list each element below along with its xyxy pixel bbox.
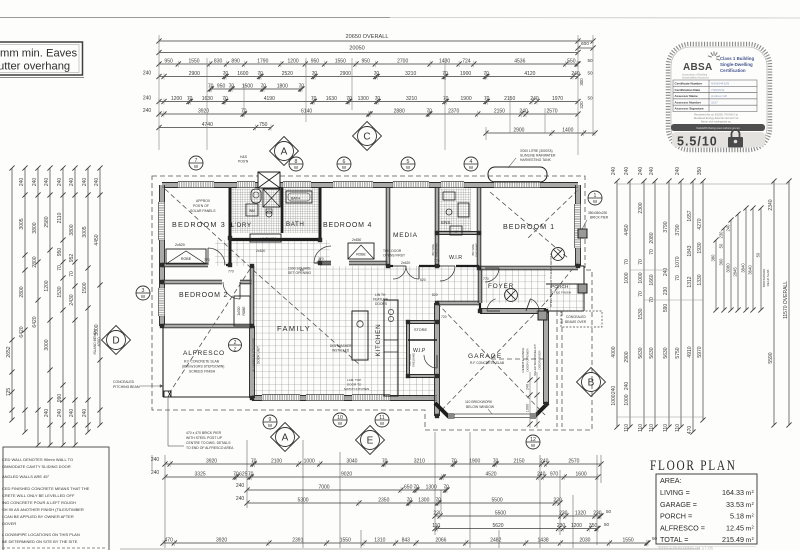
svg-text:DISHWASHER: DISHWASHER [330, 344, 352, 348]
svg-text:350: 350 [589, 523, 598, 529]
svg-text:2570: 2570 [568, 458, 579, 464]
svg-text:2520: 2520 [282, 71, 293, 77]
svg-text:ALUMINIUM STACKER: ALUMINIUM STACKER [252, 338, 256, 372]
svg-text:770: 770 [434, 259, 440, 263]
svg-text:3217: 3217 [711, 100, 718, 104]
svg-text:620: 620 [420, 278, 426, 282]
svg-text:Certificate Number: Certificate Number [675, 82, 703, 86]
svg-text:70: 70 [451, 458, 457, 464]
svg-text:SHELVING: SHELVING [475, 243, 479, 257]
svg-text:2x520: 2x520 [256, 249, 265, 253]
svg-text:D: D [112, 336, 119, 347]
svg-text:3800: 3800 [69, 224, 75, 235]
svg-text:300: 300 [579, 78, 584, 86]
svg-text:70: 70 [374, 71, 380, 77]
svg-text:70: 70 [229, 83, 235, 89]
svg-text:50: 50 [718, 243, 723, 248]
svg-text:5.5/10: 5.5/10 [677, 135, 718, 149]
svg-text:240: 240 [94, 178, 100, 187]
svg-text:3920: 3920 [216, 537, 227, 543]
svg-text:KITCHEN: KITCHEN [375, 324, 382, 357]
svg-text:2350: 2350 [378, 497, 389, 503]
svg-text:350x350x230: 350x350x230 [588, 211, 607, 215]
svg-text:ANGLED WALLS ARE 45°: ANGLED WALLS ARE 45° [2, 474, 50, 479]
svg-text:LAM. TOP: LAM. TOP [347, 378, 361, 382]
svg-text:20050: 20050 [349, 46, 365, 52]
svg-text:APPROX: APPROX [196, 199, 211, 203]
svg-text:Rendered Energy data this led: Rendered Energy data this led won't at [694, 116, 739, 120]
svg-text:70: 70 [413, 484, 419, 490]
svg-text:4520: 4520 [485, 471, 496, 477]
svg-text:3: 3 [142, 288, 145, 294]
svg-text:890: 890 [231, 58, 240, 64]
svg-text:720: 720 [271, 237, 277, 241]
svg-text:240: 240 [57, 178, 63, 187]
svg-text:1800: 1800 [277, 83, 288, 89]
svg-text:2066: 2066 [435, 537, 446, 543]
svg-text:70: 70 [233, 471, 239, 477]
svg-text:THIS DOOR: THIS DOOR [383, 249, 402, 253]
svg-text:3790: 3790 [675, 224, 681, 235]
svg-text:1430: 1430 [439, 58, 450, 64]
svg-text:utter overhang: utter overhang [0, 61, 70, 73]
svg-text:2010 A BUILDING 04.17.05: 2010 A BUILDING 04.17.05 [658, 546, 714, 550]
svg-text:3000: 3000 [44, 339, 50, 350]
svg-text:70: 70 [443, 96, 449, 102]
svg-text:ABSA: ABSA [683, 62, 713, 73]
svg-text:625: 625 [239, 471, 248, 477]
svg-text:BEAMS OVER: BEAMS OVER [565, 320, 587, 324]
svg-text:70: 70 [222, 96, 228, 102]
svg-text:1550: 1550 [340, 537, 351, 543]
svg-text:4190: 4190 [264, 96, 275, 102]
svg-text:5630: 5630 [663, 347, 669, 358]
svg-text:GARAGE: GARAGE [468, 353, 502, 360]
svg-text:12.45: 12.45 [726, 523, 744, 532]
svg-text:1300: 1300 [426, 484, 437, 490]
svg-text:240: 240 [624, 382, 630, 391]
svg-text:3800: 3800 [32, 222, 38, 233]
svg-text:3210: 3210 [406, 96, 417, 102]
svg-text:70: 70 [251, 458, 257, 464]
svg-text:2150: 2150 [494, 108, 505, 114]
svg-text:240: 240 [57, 409, 63, 418]
svg-text:OPENS FIRST: OPENS FIRST [383, 254, 405, 258]
svg-text:CONCEALED: CONCEALED [566, 315, 587, 319]
svg-text:CED FINISHED CONCRETE MEANS TH: CED FINISHED CONCRETE MEANS THAT THE [2, 486, 90, 491]
svg-text:L'DRY: L'DRY [231, 222, 252, 229]
svg-text:50: 50 [587, 58, 593, 63]
svg-text:70: 70 [382, 458, 388, 464]
svg-text:1000: 1000 [624, 394, 630, 405]
svg-text:164.33: 164.33 [722, 488, 744, 497]
svg-text:Rendered this on 6/2009, 7/9 K: Rendered this on 6/2009, 7/9 KW-2 at [694, 113, 738, 117]
svg-text:725: 725 [6, 388, 12, 397]
svg-text:3005: 3005 [82, 226, 88, 237]
svg-text:470: 470 [687, 426, 693, 435]
svg-text:3790: 3790 [663, 221, 669, 232]
svg-text:1550: 1550 [623, 537, 634, 543]
svg-text:1330: 1330 [697, 274, 703, 285]
svg-text:C: C [363, 132, 370, 143]
svg-text:4270: 4270 [697, 218, 703, 229]
svg-text:950: 950 [57, 248, 63, 257]
svg-text:BEDROOM 3: BEDROOM 3 [172, 220, 226, 229]
svg-text:2030: 2030 [579, 537, 590, 543]
svg-text:70: 70 [261, 83, 267, 89]
svg-text:SOLAR PANELS: SOLAR PANELS [190, 209, 216, 213]
svg-text:B: B [588, 378, 595, 389]
svg-text:1500: 1500 [82, 282, 88, 293]
svg-text:240: 240 [143, 108, 152, 114]
svg-text:FEATURE: FEATURE [373, 298, 389, 302]
svg-text:5750: 5750 [675, 347, 681, 358]
svg-text:70: 70 [346, 96, 352, 102]
svg-text:WM: WM [249, 209, 255, 213]
svg-text:50: 50 [755, 252, 760, 257]
svg-text:70: 70 [312, 71, 318, 77]
svg-text:FLOOR PLAN: FLOOR PLAN [650, 457, 737, 474]
svg-text:230: 230 [663, 287, 669, 296]
svg-text:4536: 4536 [514, 58, 525, 64]
svg-text:NSW0443ZN: NSW0443ZN [711, 82, 729, 86]
svg-text:240: 240 [611, 167, 617, 176]
svg-text:5.18: 5.18 [730, 512, 744, 521]
svg-text:ENS.: ENS. [441, 220, 452, 225]
svg-text:240: 240 [638, 167, 644, 176]
svg-text:2110: 2110 [57, 212, 63, 223]
svg-text:1300: 1300 [358, 96, 369, 102]
svg-text:1600: 1600 [576, 471, 587, 477]
svg-text:Certification: Certification [720, 68, 746, 73]
svg-text:650: 650 [404, 484, 413, 490]
svg-text:240: 240 [69, 409, 75, 418]
svg-text:360: 360 [718, 258, 723, 266]
svg-text:2845: 2845 [732, 267, 737, 277]
svg-text:110: 110 [638, 424, 644, 432]
svg-text:MEDIA: MEDIA [393, 232, 418, 239]
svg-text:R.F CONCRETE SLAB: R.F CONCRETE SLAB [184, 360, 220, 364]
svg-text:70: 70 [248, 471, 254, 477]
svg-text:ROBE: ROBE [181, 257, 192, 261]
svg-text:1320: 1320 [575, 510, 586, 516]
svg-text:5970: 5970 [697, 346, 703, 357]
svg-text:4740: 4740 [202, 122, 213, 128]
svg-text:70: 70 [493, 458, 499, 464]
svg-text:2x530: 2x530 [352, 238, 361, 242]
svg-text:4450: 4450 [624, 224, 630, 235]
svg-text:6: 6 [343, 159, 346, 165]
svg-text:A: A [282, 433, 289, 444]
svg-text:240: 240 [151, 457, 160, 463]
svg-text:DOOR OVER: DOOR OVER [538, 350, 542, 370]
svg-text:TOTAL =: TOTAL = [660, 535, 688, 544]
svg-text:2700: 2700 [397, 58, 408, 64]
svg-text:CONCEALED: CONCEALED [113, 380, 135, 384]
svg-text:2340: 2340 [768, 199, 774, 210]
svg-text:DOOR UNIT: DOOR UNIT [257, 346, 261, 364]
svg-text:1550: 1550 [188, 58, 199, 64]
svg-text:ING CONCRETE POUR & LEFT ROUGH: ING CONCRETE POUR & LEFT ROUGH [2, 500, 76, 505]
svg-text:1: 1 [594, 193, 597, 199]
svg-text:770: 770 [483, 277, 489, 281]
svg-text:50: 50 [587, 96, 593, 101]
svg-text:5500: 5500 [495, 510, 506, 516]
svg-text:1438: 1438 [538, 537, 549, 543]
svg-text:PORCH: PORCH [551, 284, 569, 290]
svg-text:720: 720 [441, 315, 447, 319]
svg-text:350: 350 [697, 167, 703, 176]
svg-text:50: 50 [606, 509, 612, 514]
svg-text:R.F CONCRETE SLAB: R.F CONCRETE SLAB [470, 361, 505, 365]
svg-text:SHELVING: SHELVING [435, 243, 439, 257]
svg-text:1400: 1400 [562, 127, 573, 133]
svg-text:70: 70 [443, 484, 449, 490]
svg-text:20650 OVERALL: 20650 OVERALL [346, 34, 389, 40]
svg-text:7000: 7000 [318, 484, 329, 490]
svg-text:3'000 LITRE (3000TA): 3'000 LITRE (3000TA) [520, 149, 553, 153]
svg-text:7: 7 [195, 158, 198, 164]
svg-text:230: 230 [718, 231, 723, 239]
svg-text:1660: 1660 [649, 274, 655, 285]
svg-text:240: 240 [624, 167, 630, 176]
svg-text:PITCHING BEAM: PITCHING BEAM [113, 385, 140, 389]
svg-text:POS'N OF: POS'N OF [193, 204, 209, 208]
svg-text:Assessor Number: Assessor Number [675, 100, 702, 104]
svg-text:OMMODATE CAVITY SLIDING DOOR: OMMODATE CAVITY SLIDING DOOR [2, 464, 71, 469]
svg-text:240: 240 [236, 483, 245, 489]
svg-text:2900: 2900 [189, 71, 200, 77]
svg-text:320: 320 [579, 101, 584, 109]
svg-text:SH 90 AS ANOTHER FINISH (TILES: SH 90 AS ANOTHER FINISH (TILES/TIMBER [2, 507, 84, 512]
svg-text:1000: 1000 [624, 272, 630, 283]
svg-text:Assessor Name: Assessor Name [675, 94, 698, 98]
svg-text:4120: 4120 [524, 71, 535, 77]
svg-text:240: 240 [143, 71, 152, 77]
svg-text:110: 110 [432, 523, 440, 529]
svg-text:4000: 4000 [97, 337, 102, 347]
svg-text:L DOWNPIPE LOCATIONS ON THIS P: L DOWNPIPE LOCATIONS ON THIS PLAN [2, 532, 80, 537]
svg-text:2652: 2652 [6, 346, 12, 357]
svg-text:1500: 1500 [242, 83, 253, 89]
svg-text:BEDROOM 2: BEDROOM 2 [179, 292, 228, 299]
svg-text:2391: 2391 [292, 537, 303, 543]
svg-text:1310: 1310 [374, 537, 385, 543]
svg-text:70: 70 [208, 83, 214, 89]
svg-text:240: 240 [649, 167, 655, 176]
svg-text:WITH STEEL POST UP: WITH STEEL POST UP [186, 436, 223, 440]
svg-text:4000: 4000 [611, 346, 617, 357]
svg-text:5620: 5620 [492, 523, 503, 529]
svg-text:1630: 1630 [326, 96, 337, 102]
svg-text:70: 70 [675, 275, 681, 281]
svg-text:CENTRE TO DWG. DETAILS: CENTRE TO DWG. DETAILS [186, 441, 231, 445]
svg-text:2100: 2100 [271, 458, 282, 464]
svg-text:(86mm/1GRS STEPDOWN): (86mm/1GRS STEPDOWN) [182, 365, 224, 369]
svg-text:LIN TH: LIN TH [375, 293, 386, 297]
svg-text:2370: 2370 [448, 108, 459, 114]
svg-text:50: 50 [587, 71, 593, 76]
svg-text:1600: 1600 [237, 71, 248, 77]
svg-text:BEDROOM 1: BEDROOM 1 [503, 222, 555, 231]
svg-text:FAMILY: FAMILY [277, 324, 311, 333]
svg-text:215.49: 215.49 [722, 535, 744, 544]
svg-text:1000: 1000 [304, 458, 315, 464]
svg-text:2482: 2482 [490, 537, 501, 543]
svg-text:2x620: 2x620 [401, 261, 410, 265]
svg-text:BEDROOM 4: BEDROOM 4 [323, 222, 372, 229]
svg-text:Sustainability Assessors: Sustainability Assessors [682, 77, 710, 80]
svg-text:1550: 1550 [335, 58, 346, 64]
svg-text:830: 830 [214, 58, 223, 64]
svg-text:HARVESTING TANK: HARVESTING TANK [520, 158, 552, 162]
svg-text:CED WALL DENOTES 90mm WALL TO: CED WALL DENOTES 90mm WALL TO [2, 457, 73, 462]
svg-text:STORE: STORE [414, 328, 427, 332]
svg-text:1790: 1790 [257, 58, 268, 64]
svg-text:70: 70 [375, 96, 381, 102]
svg-text:1312: 1312 [687, 276, 693, 287]
svg-text:70: 70 [426, 108, 432, 114]
svg-text:1300: 1300 [418, 497, 429, 503]
svg-text:3210: 3210 [405, 71, 416, 77]
svg-text:110: 110 [624, 424, 630, 432]
svg-text:1200: 1200 [571, 523, 582, 529]
svg-text:REMOTE DANCE: REMOTE DANCE [521, 348, 525, 373]
svg-text:REAR SLAB: REAR SLAB [766, 270, 770, 287]
svg-text:Q'TILE FINISH: Q'TILE FINISH [551, 291, 571, 295]
svg-text:50: 50 [652, 536, 658, 541]
svg-text:2900: 2900 [513, 127, 524, 133]
svg-text:843: 843 [402, 537, 411, 543]
svg-text:2900: 2900 [624, 351, 630, 362]
svg-text:70: 70 [483, 71, 489, 77]
svg-text:240: 240 [44, 409, 50, 418]
svg-text:BE DETERMINED ON SITE BY THE S: BE DETERMINED ON SITE BY THE SITE [2, 539, 78, 544]
svg-text:110: 110 [663, 424, 669, 432]
svg-text:70: 70 [223, 71, 229, 77]
svg-text:Assessor Signature: Assessor Signature [675, 107, 704, 111]
svg-text:2x520: 2x520 [175, 243, 185, 247]
svg-text:1843: 1843 [687, 245, 693, 256]
svg-text:1000: 1000 [611, 394, 617, 405]
svg-text:7/09/2011: 7/09/2011 [711, 88, 725, 92]
svg-text:1630: 1630 [202, 96, 213, 102]
svg-text:SELECTED PANELIFT: SELECTED PANELIFT [533, 344, 537, 376]
svg-text:5300: 5300 [297, 497, 308, 503]
svg-text:240: 240 [525, 384, 529, 390]
svg-text:1000: 1000 [525, 404, 529, 412]
svg-text:Certification Date: Certification Date [675, 88, 701, 92]
svg-text:ROBE: ROBE [356, 253, 366, 257]
svg-text:70: 70 [638, 291, 644, 297]
svg-text:240: 240 [82, 178, 88, 187]
svg-text:952: 952 [69, 254, 75, 263]
svg-text:3210: 3210 [414, 458, 425, 464]
svg-text:110: 110 [649, 424, 655, 432]
svg-text:3840: 3840 [740, 263, 745, 273]
svg-text:380: 380 [710, 254, 715, 262]
svg-text:2x520: 2x520 [237, 306, 241, 315]
svg-text:5590: 5590 [768, 352, 774, 363]
svg-text:60: 60 [300, 268, 304, 272]
svg-text:BATH: BATH [286, 221, 304, 228]
svg-text:3040: 3040 [346, 458, 357, 464]
svg-text:I CAN BE APPLIED BY OWNER AFTE: I CAN BE APPLIED BY OWNER AFTER [2, 514, 74, 519]
svg-text:240: 240 [236, 496, 245, 502]
svg-text:11570 OVERALL: 11570 OVERALL [783, 281, 789, 319]
svg-text:ALFRESCO: ALFRESCO [183, 350, 225, 357]
svg-text:240: 240 [19, 178, 25, 187]
svg-text:70: 70 [299, 83, 305, 89]
svg-text:9: 9 [269, 417, 272, 423]
svg-text:2430: 2430 [69, 294, 75, 305]
svg-text:470 x 470 BRICK PIER: 470 x 470 BRICK PIER [186, 431, 222, 435]
svg-text:2800: 2800 [19, 286, 25, 297]
svg-text:ROBE: ROBE [242, 306, 246, 315]
svg-text:750: 750 [259, 122, 268, 128]
svg-text:770: 770 [318, 257, 324, 261]
svg-text:240: 240 [663, 268, 669, 277]
svg-text:5500: 5500 [492, 497, 503, 503]
svg-text:1200: 1200 [171, 96, 182, 102]
svg-text:770: 770 [228, 270, 234, 274]
svg-text:240: 240 [44, 178, 50, 187]
svg-text:3080: 3080 [725, 263, 730, 273]
svg-text:E: E [367, 436, 374, 447]
svg-text:8: 8 [295, 159, 298, 165]
svg-text:H&S: H&S [240, 155, 248, 159]
svg-text:470: 470 [165, 537, 174, 543]
svg-text:4910: 4910 [687, 346, 693, 357]
svg-text:2080: 2080 [649, 232, 655, 243]
svg-text:770: 770 [204, 258, 210, 262]
svg-text:4: 4 [470, 159, 473, 165]
svg-text:BELOW WINDOW: BELOW WINDOW [466, 405, 495, 409]
svg-text:550: 550 [567, 58, 576, 64]
svg-text:70: 70 [407, 497, 413, 503]
svg-text:50: 50 [604, 522, 610, 527]
svg-text:3005: 3005 [19, 218, 25, 229]
svg-text:INSTALLED: INSTALLED [332, 349, 350, 353]
svg-text:SCREED FINISH: SCREED FINISH [189, 370, 216, 374]
svg-text:70: 70 [624, 259, 630, 265]
svg-text:DOOR TO: DOOR TO [347, 383, 362, 387]
svg-text:DOOR OPENER: DOOR OPENER [526, 348, 530, 372]
svg-text:Better with tradingsites au: Better with tradingsites au [701, 120, 731, 124]
svg-text:5630: 5630 [638, 347, 644, 358]
svg-text:2800: 2800 [32, 256, 38, 267]
svg-text:6140: 6140 [301, 108, 312, 114]
svg-text:70: 70 [638, 259, 644, 265]
svg-text:70: 70 [187, 96, 193, 102]
svg-text:AREA:: AREA: [660, 476, 682, 485]
svg-text:240: 240 [725, 224, 730, 232]
svg-text:950: 950 [164, 58, 173, 64]
svg-text:1200: 1200 [288, 58, 299, 64]
svg-text:W.I.R: W.I.R [449, 255, 462, 261]
svg-text:9020: 9020 [341, 471, 352, 477]
svg-text:70: 70 [649, 249, 655, 255]
svg-text:3325: 3325 [195, 471, 206, 477]
svg-text:BATH: BATH [291, 197, 301, 201]
svg-text:70: 70 [257, 71, 263, 77]
svg-text:590: 590 [663, 304, 669, 313]
svg-text:70: 70 [57, 265, 63, 271]
svg-text:950: 950 [362, 58, 371, 64]
svg-text:SHELVING: SHELVING [412, 353, 416, 367]
svg-text:110 BRICKWORK: 110 BRICKWORK [465, 400, 493, 404]
svg-text:724: 724 [462, 58, 471, 64]
